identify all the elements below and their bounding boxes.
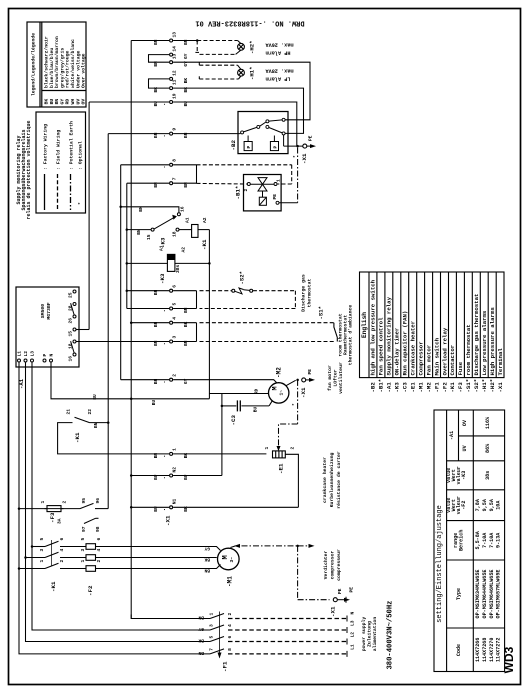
svg-text:-A1: -A1 <box>449 431 455 440</box>
wire terminal 9 to B2 contact A <box>108 133 169 135</box>
PE rail from M1 to X1 <box>242 546 330 600</box>
svg-text:-S2*: -S2* <box>239 271 246 284</box>
wire N from A1 down <box>51 362 209 399</box>
svg-text:-S2*: -S2* <box>473 379 480 393</box>
svg-text:-B1*: -B1* <box>378 379 385 393</box>
A1 contact arm upper <box>71 303 75 315</box>
svg-text:21: 21 <box>66 409 72 415</box>
B2 contact A <box>241 131 244 134</box>
svg-text:BN: BN <box>204 568 210 574</box>
svg-text:BN: BN <box>136 229 142 235</box>
svg-text:114X7270: 114X7270 <box>489 638 495 662</box>
bus from terminal 19 down to A1 <box>88 102 90 330</box>
svg-text:7-10A: 7-10A <box>482 532 488 548</box>
svg-text:L3: L3 <box>350 620 356 626</box>
svg-text:-F3: -F3 <box>457 382 464 393</box>
terminal 9 <box>170 132 173 135</box>
settings table <box>434 410 505 672</box>
PE arrow into heater E1 <box>277 446 281 451</box>
terminal 4 <box>170 321 173 324</box>
wire terminal 11 to B2 contact C <box>173 88 303 133</box>
fan speed control B1 box <box>244 175 282 211</box>
svg-text:BK: BK <box>44 99 50 105</box>
svg-text:Compressor: Compressor <box>417 341 424 375</box>
pressure switch B2 box <box>238 112 288 154</box>
svg-text:GY: GY <box>204 546 210 552</box>
svg-text:L2: L2 <box>23 351 29 357</box>
svg-text:97: 97 <box>81 526 87 532</box>
svg-text:Terminal: Terminal <box>497 348 504 376</box>
svg-text:: Factory Wiring: : Factory Wiring <box>43 124 49 170</box>
svg-text:1: 1 <box>172 448 178 451</box>
svg-text:Run capacitor (FAN): Run capacitor (FAN) <box>402 311 409 376</box>
svg-text:13: 13 <box>172 32 178 38</box>
svg-text:38s: 38s <box>485 471 491 480</box>
wire terminal 1 / heater row <box>173 453 266 455</box>
svg-text:UV: UV <box>75 99 81 105</box>
svg-text:BK: BK <box>183 321 189 327</box>
svg-text:4: 4 <box>96 549 102 552</box>
B2 contact mid2 <box>266 120 269 123</box>
field wiring terminal 8 to B1 terminal 1 <box>197 165 292 184</box>
terminal 14 <box>170 53 173 56</box>
svg-text:1: 1 <box>80 560 86 563</box>
B2 pressure element P high <box>270 142 278 151</box>
wire terminal 7 <box>127 182 169 184</box>
svg-text:Bereich: Bereich <box>459 530 465 551</box>
svg-text:BU: BU <box>183 474 189 480</box>
svg-text:2: 2 <box>96 560 102 563</box>
svg-text:-C3: -C3 <box>402 382 409 393</box>
node PE junction at M1 <box>296 545 299 548</box>
terminal 8 <box>170 163 173 166</box>
svg-text:BU: BU <box>49 99 55 105</box>
svg-text:High pressure alarms: High pressure alarms <box>489 307 496 376</box>
svg-text:BK: BK <box>183 87 189 93</box>
svg-text:WD3: WD3 <box>502 646 516 673</box>
svg-text:3A: 3A <box>57 518 63 524</box>
terminal N2 <box>170 474 173 477</box>
svg-text:96: 96 <box>95 498 101 504</box>
svg-text:white/weiss/blanc: white/weiss/blanc <box>70 39 76 88</box>
terminal strip X1 circles <box>170 39 173 509</box>
F1 actuator arrow <box>218 653 222 659</box>
svg-text:OP-MSIM646MLW65E: OP-MSIM646MLW65E <box>489 570 495 619</box>
lamp H1 low pressure alarm <box>238 69 245 76</box>
room thermostat S1 contact <box>334 323 337 342</box>
jumper loop terminals 14-13 <box>149 55 170 63</box>
A1 terminal P <box>43 359 46 362</box>
svg-text:Type: Type <box>456 588 462 600</box>
svg-text:OV: OV <box>81 99 87 105</box>
F1 pole 1 contact <box>210 614 224 619</box>
svg-text:BN: BN <box>153 39 159 45</box>
A1 contact arm lower <box>71 341 75 353</box>
svg-text:-S1*: -S1* <box>318 306 325 319</box>
svg-text:BK: BK <box>183 506 189 512</box>
wire F3 to F2 aux <box>61 508 80 510</box>
B2 contact B <box>282 118 285 121</box>
svg-text:4: 4 <box>227 624 233 627</box>
svg-text:28: 28 <box>68 305 74 311</box>
legend box (wire colour codes) <box>27 22 86 107</box>
svg-text:-F3: -F3 <box>49 512 56 523</box>
compressor M1 <box>218 548 240 570</box>
svg-text:legend/Legende/légende: legend/Legende/légende <box>31 33 37 96</box>
svg-text:*: * <box>78 202 84 205</box>
svg-text:-M2: -M2 <box>425 382 432 393</box>
svg-text:M: M <box>222 555 230 559</box>
svg-text:2: 2 <box>290 447 296 450</box>
svg-text:BU: BU <box>253 407 259 413</box>
wire terminal 19 (BU) <box>89 101 169 103</box>
crankcase heater E1 <box>273 451 286 458</box>
svg-text:1: 1 <box>209 613 215 616</box>
svg-text:-E1: -E1 <box>278 463 285 474</box>
svg-text:86%: 86% <box>485 443 491 453</box>
terminal N1 <box>170 506 173 509</box>
svg-text:9,5A: 9,5A <box>489 498 495 511</box>
svg-text:13: 13 <box>172 53 178 59</box>
svg-text:18: 18 <box>172 231 178 237</box>
svg-text:BN: BN <box>138 206 144 212</box>
svg-text:Crankcase heater: Crankcase heater <box>410 321 417 376</box>
node PE junction at M2 <box>296 379 299 382</box>
svg-text:5: 5 <box>209 636 215 639</box>
wire node to timer contact 16 <box>121 207 179 213</box>
svg-text:BU: BU <box>153 101 159 107</box>
svg-text:-F1: -F1 <box>222 661 229 672</box>
run capacitor C3 wires <box>222 405 236 407</box>
svg-text:114X7266: 114X7266 <box>475 638 481 662</box>
svg-text:3: 3 <box>39 549 45 552</box>
svg-text:2: 2 <box>243 189 249 192</box>
svg-text:7-10A: 7-10A <box>489 532 495 548</box>
svg-text:Main switch: Main switch <box>433 337 440 375</box>
jumper loop terminals 8-7 <box>196 165 198 183</box>
junction nodes on buses <box>196 39 199 42</box>
terminal 19 <box>170 101 173 104</box>
svg-text:Fan speed control: Fan speed control <box>378 317 385 376</box>
PE rail dash-dot B2 to E1 <box>279 148 298 448</box>
svg-text:fan motor: fan motor <box>327 365 333 391</box>
M2 PE lead <box>286 380 296 386</box>
svg-text:Discharge gas: Discharge gas <box>300 274 306 312</box>
svg-text:: Optional: : Optional <box>78 141 84 170</box>
svg-text:BU: BU <box>151 400 157 406</box>
svg-text:3: 3 <box>172 336 178 339</box>
svg-text:English: English <box>361 312 368 338</box>
svg-text:Lüfter: Lüfter <box>333 369 339 386</box>
svg-text:GY: GY <box>198 626 204 632</box>
svg-text:-K1: -K1 <box>201 239 208 250</box>
svg-text:A2: A2 <box>181 247 187 253</box>
svg-text:BN: BN <box>153 378 159 384</box>
terminal 5 <box>170 307 173 310</box>
svg-text:room thermostat: room thermostat <box>465 324 472 375</box>
svg-text:Under voltage: Under voltage <box>75 50 81 88</box>
svg-text:OP-MSIM634MLW65E: OP-MSIM634MLW65E <box>475 570 481 619</box>
svg-text:blue/blau/bleu: blue/blau/bleu <box>49 48 55 88</box>
svg-text:A1: A1 <box>185 217 191 223</box>
A1 terminal N <box>50 359 53 362</box>
svg-text:-X1: -X1 <box>300 387 307 398</box>
svg-text:7,8A: 7,8A <box>475 498 481 511</box>
B2 pressure element links <box>247 136 249 142</box>
svg-text:résistance de carter: résistance de carter <box>336 451 342 509</box>
wire L3 field <box>228 629 347 631</box>
A1 contact 26 <box>73 315 76 318</box>
terminal 6 <box>170 289 173 292</box>
svg-text:-M1: -M1 <box>417 382 424 393</box>
svg-text:114X7272: 114X7272 <box>496 638 502 662</box>
svg-text:10A: 10A <box>496 500 502 510</box>
overload relay F2 heater pole 1 <box>86 544 96 550</box>
svg-text:16: 16 <box>180 206 186 212</box>
F1 link <box>219 612 221 658</box>
English legend table <box>360 272 505 378</box>
SEC2 <box>19 134 108 524</box>
svg-text:GY: GY <box>183 61 189 67</box>
wire L3 phase down <box>32 362 210 630</box>
B1 terminal 2 <box>247 183 250 186</box>
terminal 12 <box>170 77 173 80</box>
svg-text:-C3: -C3 <box>230 415 237 426</box>
svg-text:-B2: -B2 <box>230 140 237 151</box>
svg-text:-S1*: -S1* <box>465 379 472 393</box>
svg-text:BN: BN <box>153 453 159 459</box>
lamp H2 high pressure alarm <box>238 43 245 50</box>
wire L1 phase down <box>19 362 210 654</box>
svg-text:BU: BU <box>92 394 98 400</box>
svg-text:crankcase heater: crankcase heater <box>322 457 328 503</box>
discharge gas thermostat S2 <box>232 289 253 292</box>
svg-text:-H2*: -H2* <box>249 41 256 54</box>
svg-text:OP-MSIM657MLW65E: OP-MSIM657MLW65E <box>496 570 502 619</box>
svg-text:Verdichter: Verdichter <box>323 550 329 579</box>
wire L2 phase down <box>26 362 211 641</box>
relay A1 supply monitoring relay box <box>16 287 79 367</box>
svg-text:14: 14 <box>172 46 178 52</box>
F1 pole 4 contact <box>210 649 224 654</box>
jumper loop terminals 4-3 <box>196 323 198 342</box>
svg-text:A2: A2 <box>202 217 208 223</box>
svg-text:6: 6 <box>96 538 102 541</box>
svg-text:2: 2 <box>227 613 233 616</box>
wire to timer contact 15 <box>127 229 151 231</box>
svg-text:-K1: -K1 <box>50 581 57 592</box>
svg-text:compressor: compressor <box>331 550 336 579</box>
wire L1 tap to fuse F3 <box>19 508 47 510</box>
svg-text:BN: BN <box>153 182 159 188</box>
svg-text:BN: BN <box>93 422 99 428</box>
svg-text:26: 26 <box>68 318 74 324</box>
B1 PE wire to rail <box>279 202 297 204</box>
B1 triac symbol <box>251 178 274 206</box>
field wiring terminal 7 to B1 terminal 2 <box>197 182 248 185</box>
svg-text:-K1: -K1 <box>74 432 81 443</box>
terminal 1 <box>170 452 173 455</box>
svg-text:1: 1 <box>264 447 270 450</box>
wire terminal 3 <box>173 341 196 343</box>
svg-text:Overload relay: Overload relay <box>441 327 448 375</box>
svg-text:BN: BN <box>183 182 189 188</box>
svg-text:16: 16 <box>68 356 74 362</box>
svg-text:BN: BN <box>153 340 159 346</box>
svg-text:8: 8 <box>227 648 233 651</box>
svg-text:GY: GY <box>183 53 189 59</box>
node PE junction at B2 <box>296 145 299 148</box>
svg-text:BN: BN <box>153 61 159 67</box>
svg-text:BN: BN <box>198 650 204 656</box>
svg-text:BN: BN <box>153 321 159 327</box>
svg-text:PE: PE <box>337 588 343 594</box>
svg-text:7: 7 <box>172 177 178 180</box>
K1 pole 1-2 <box>19 568 45 570</box>
bus capacitor branch (x221.9) <box>221 394 223 476</box>
A1 contact 18 <box>73 340 76 343</box>
svg-text:Low pressure alarms: Low pressure alarms <box>481 310 488 375</box>
terminal 2 <box>170 378 173 381</box>
svg-text:power supply: power supply <box>361 617 367 652</box>
svg-text:SM500: SM500 <box>40 304 46 319</box>
factory wiring sample <box>44 174 46 210</box>
B2 PE wire to terminal X1 <box>283 135 285 146</box>
fuse F3 <box>47 506 61 512</box>
svg-text:BN: BN <box>183 340 189 346</box>
M1 PE lead with arrow <box>231 546 236 548</box>
svg-text:9-13A: 9-13A <box>496 532 502 548</box>
svg-text:L1: L1 <box>350 644 356 650</box>
B2 switch arms <box>244 127 257 132</box>
svg-text:-X1: -X1 <box>301 153 308 164</box>
A1 terminal L3 <box>31 359 34 362</box>
svg-text:-K3: -K3 <box>461 471 467 480</box>
field wiring room thermostat S1 loop <box>200 323 335 342</box>
B1 terminal PE <box>276 201 279 204</box>
svg-text:: Field Wiring: : Field Wiring <box>56 130 62 170</box>
svg-text:5,5-8A: 5,5-8A <box>475 530 481 549</box>
svg-text:1: 1 <box>40 501 46 504</box>
svg-text:relais de protection voltmetri: relais de protection voltmetrique <box>26 120 32 219</box>
svg-text:BK: BK <box>204 557 210 563</box>
wire terminal 8 <box>121 164 169 166</box>
svg-text:grey/grey/gris: grey/grey/gris <box>59 48 65 88</box>
svg-text:-K3: -K3 <box>159 273 166 284</box>
svg-text:BN: BN <box>183 307 189 313</box>
overload relay F2 heater pole 3 <box>86 566 96 572</box>
svg-text:BK: BK <box>153 87 159 93</box>
terminal 13 <box>170 39 173 42</box>
svg-text:PE: PE <box>308 135 314 141</box>
contactor K1 coil <box>192 225 198 238</box>
svg-text:*: * <box>292 403 298 406</box>
svg-text:compresseur: compresseur <box>337 549 342 581</box>
potential earth sample <box>70 174 72 210</box>
svg-text:-M1: -M1 <box>227 576 234 587</box>
svg-text:5: 5 <box>172 303 178 306</box>
terminal 3 <box>170 340 173 343</box>
svg-text:red/rot/rouge: red/rot/rouge <box>65 50 71 88</box>
line style legend box <box>36 112 86 213</box>
B2 contact C <box>282 132 285 135</box>
svg-text:PE: PE <box>272 194 278 200</box>
svg-text:BU: BU <box>153 506 159 512</box>
svg-text:Fuse: Fuse <box>457 361 464 375</box>
terminal X1 PE (M2) <box>302 378 306 382</box>
field wiring S2 loop <box>200 291 296 309</box>
svg-text:UV: UV <box>462 444 468 451</box>
terminal 7 <box>170 182 173 185</box>
wire terminal 13 to B2 contact B <box>173 62 310 120</box>
bus control phase (x108) <box>107 134 109 509</box>
wire L1 field <box>228 653 347 655</box>
K1 link <box>51 540 53 566</box>
field return lamp H2 to 14 <box>200 53 236 55</box>
svg-text:high and low pressure switch: high and low pressure switch <box>370 279 377 375</box>
svg-text:WH: WH <box>70 99 76 105</box>
svg-text:11: 11 <box>172 79 178 85</box>
B2 pressure element P low <box>244 142 252 151</box>
svg-text:7: 7 <box>209 648 215 651</box>
svg-text:OP-MSIM644MLW65E: OP-MSIM644MLW65E <box>482 570 488 619</box>
svg-text:3~: 3~ <box>229 557 235 563</box>
svg-text:18: 18 <box>68 343 74 349</box>
jumper loop terminals 12-11 <box>149 79 170 88</box>
svg-text:BK: BK <box>183 78 189 84</box>
svg-text:98: 98 <box>95 526 101 532</box>
SEC3 <box>89 41 310 619</box>
svg-text:15: 15 <box>68 331 74 337</box>
timer K3 delay contact <box>151 213 180 231</box>
svg-text:-H1*: -H1* <box>249 67 256 80</box>
F1 pole 2 contact <box>210 625 224 630</box>
wire terminal 13 to lamp feed <box>173 40 197 42</box>
terminal 11 <box>170 87 173 90</box>
svg-text:25: 25 <box>68 292 74 298</box>
A1 contact 16 <box>73 353 76 356</box>
svg-text:OV: OV <box>462 419 468 426</box>
fan motor M2 <box>269 383 289 403</box>
svg-text:P: P <box>272 146 278 149</box>
wire heater E1 return <box>285 454 298 507</box>
main switch F1 <box>131 612 224 658</box>
svg-text:thermostat: thermostat <box>306 278 312 307</box>
wire terminal 5 <box>127 308 169 310</box>
svg-text:PE: PE <box>307 369 313 375</box>
overload relay F2 heater pole 2 <box>86 555 96 561</box>
svg-text:-X1: -X1 <box>165 515 172 526</box>
svg-text:BK: BK <box>183 453 189 459</box>
wire K1 coil to neutral bus <box>198 229 209 231</box>
bus neutral control (x209.4) <box>208 230 210 399</box>
svg-text:BN: BN <box>183 39 189 45</box>
B1 terminal 1 <box>274 183 277 186</box>
wire terminal N1 <box>131 506 169 508</box>
svg-text:Code: Code <box>456 644 462 656</box>
svg-text:116%: 116% <box>485 416 491 429</box>
svg-text:alimentation: alimentation <box>372 617 378 652</box>
overload F2 aux contact 97-98 <box>84 518 96 523</box>
svg-text:P: P <box>42 354 48 357</box>
svg-text:L2: L2 <box>350 632 356 638</box>
svg-text:P: P <box>246 146 252 149</box>
field wire to lamp H1 <box>199 64 237 66</box>
contactor K1 main contacts <box>19 540 221 571</box>
svg-text:19: 19 <box>172 93 178 99</box>
svg-text:thermostat d'ambiance: thermostat d'ambiance <box>347 305 353 366</box>
svg-text:brown/braun/marron: brown/braun/marron <box>54 36 60 88</box>
